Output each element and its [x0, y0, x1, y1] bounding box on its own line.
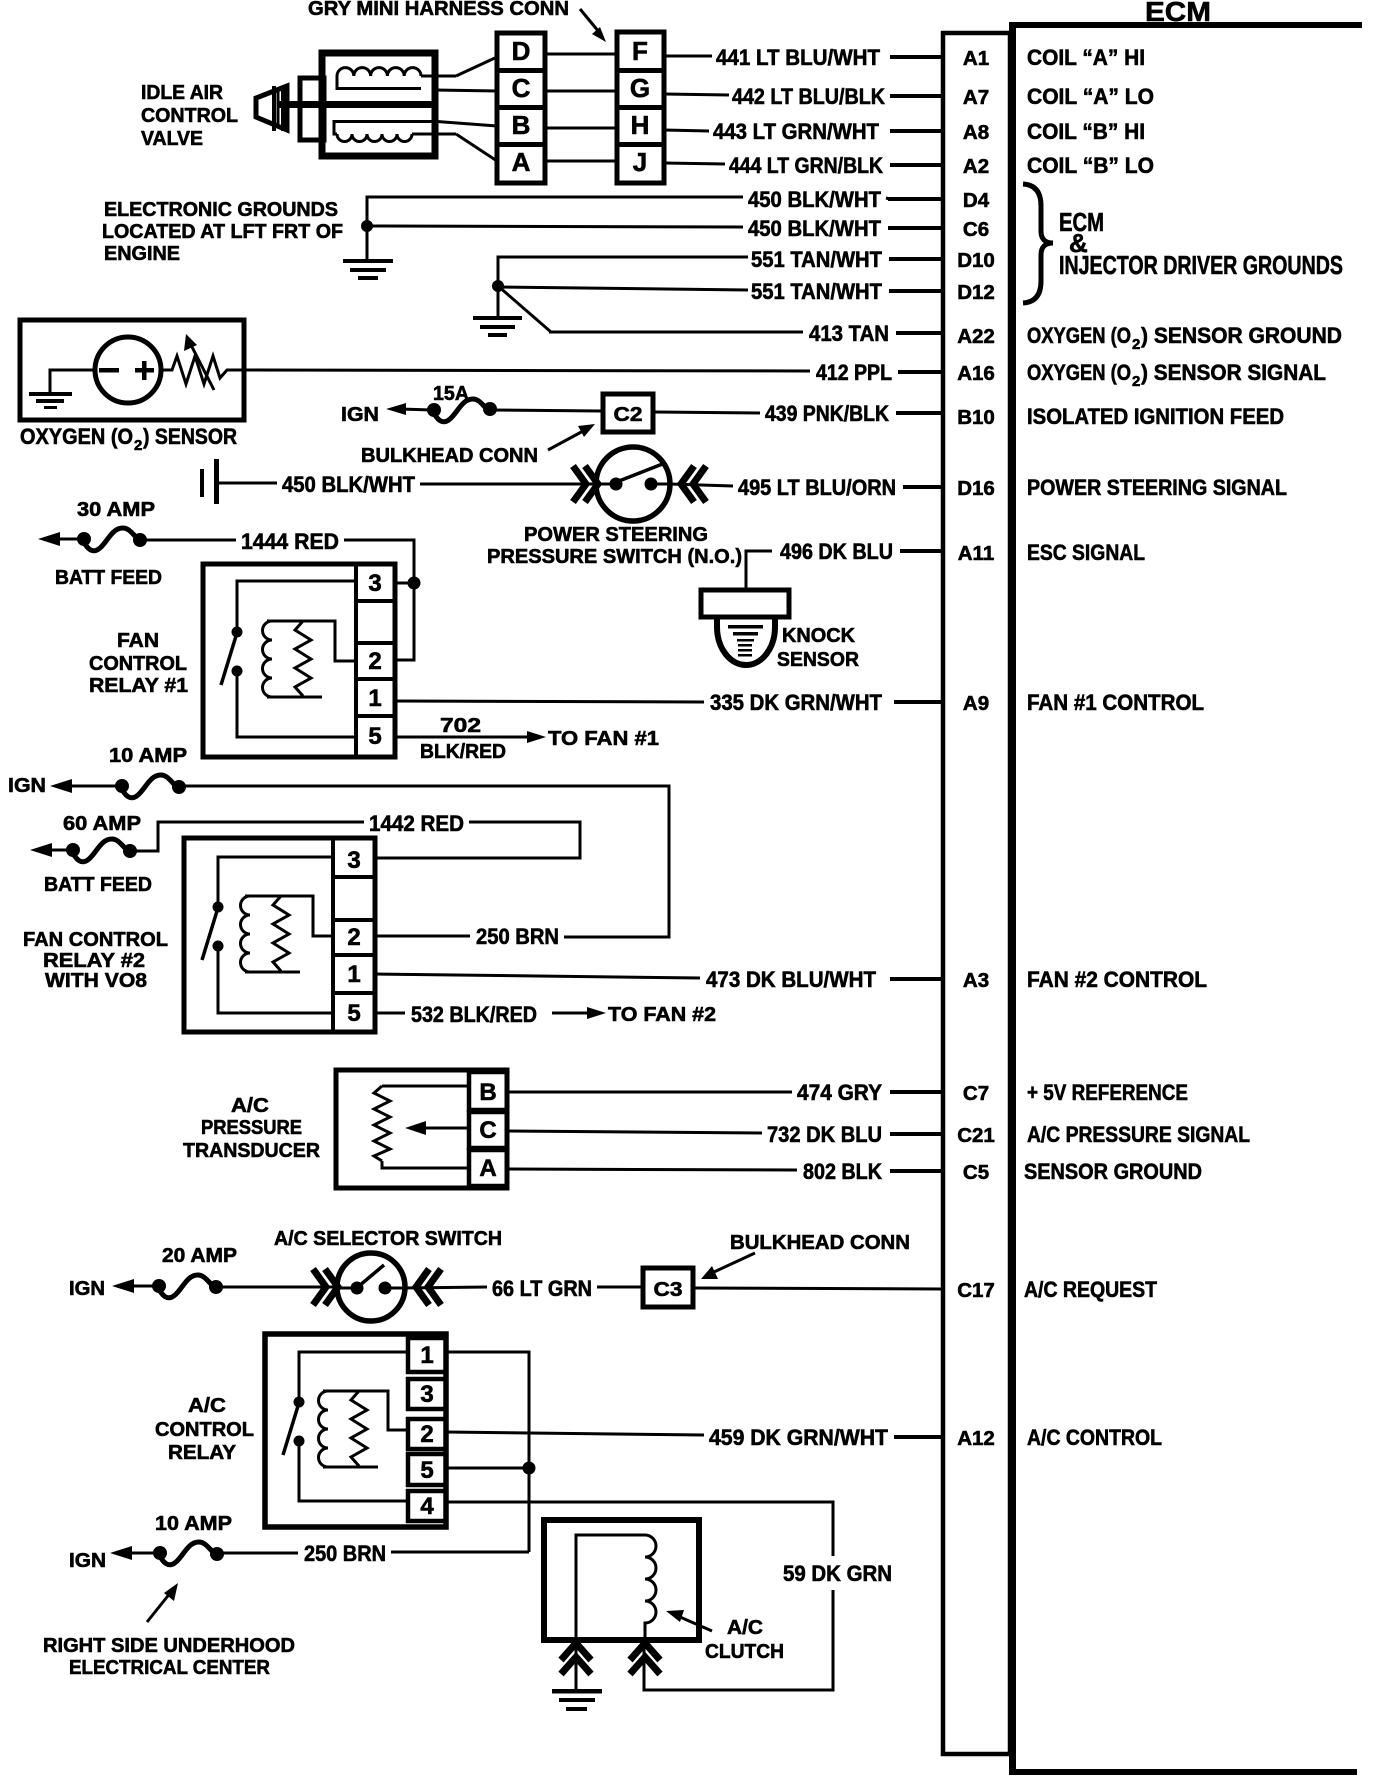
wire 60A fuse to 1442 RED: [130, 822, 364, 851]
A/C selector switch circle: [337, 1253, 405, 1321]
svg-text:SENSOR: SENSOR: [777, 649, 860, 671]
svg-text:COIL “A” HI: COIL “A” HI: [1027, 45, 1145, 70]
wire fuse to 250 BRN label: [217, 1552, 298, 1555]
valve cone inner line: [277, 90, 280, 126]
svg-text:A/C: A/C: [231, 1095, 269, 1117]
svg-text:C: C: [479, 1117, 496, 1144]
IAC coil B (bottom winding): [334, 122, 456, 142]
svg-text:A: A: [479, 1155, 496, 1182]
svg-text:VALVE: VALVE: [141, 128, 203, 150]
wire 441 from F: [664, 55, 712, 58]
svg-text:1444 RED: 1444 RED: [241, 529, 339, 554]
label RIGHT SIDE UNDERHOOD ELECTRICAL CENTER: [43, 1635, 295, 1679]
svg-text:2: 2: [1132, 336, 1140, 353]
svg-text:443 LT GRN/WHT: 443 LT GRN/WHT: [713, 119, 880, 144]
svg-text:2: 2: [420, 1421, 433, 1448]
signal OXYGEN (O2) SENSOR SIGNAL: [1027, 360, 1326, 390]
svg-text:450 BLK/WHT: 450 BLK/WHT: [748, 187, 882, 212]
label POWER STEERING PRESSURE SWITCH (N.O.): [487, 524, 742, 568]
plus sign: [135, 361, 154, 380]
svg-text:SENSOR GROUND: SENSOR GROUND: [1024, 1159, 1202, 1184]
transducer internal bottom wire to A: [382, 1161, 469, 1168]
svg-text:C21: C21: [957, 1124, 995, 1147]
wire stub A11: [900, 549, 943, 553]
wire label to C3: [597, 1286, 641, 1289]
wire 551 TAN/WHT to D12: [498, 287, 748, 290]
svg-text:D: D: [512, 36, 531, 66]
svg-text:5: 5: [420, 1457, 433, 1484]
A/C clutch box: [544, 1520, 699, 1640]
wire switch to 495 label: [669, 484, 733, 486]
svg-text:A/C: A/C: [188, 1395, 226, 1417]
wire 532 BLK/RED from pin 5: [375, 1012, 405, 1015]
svg-text:RIGHT SIDE UNDERHOOD: RIGHT SIDE UNDERHOOD: [43, 1635, 295, 1657]
svg-text:ESC SIGNAL: ESC SIGNAL: [1027, 540, 1145, 565]
svg-text:A9: A9: [963, 692, 989, 715]
svg-text:A/C: A/C: [727, 1617, 763, 1639]
svg-text:IGN: IGN: [8, 775, 46, 797]
arrow to C2: [548, 424, 595, 450]
svg-text:COIL “B” HI: COIL “B” HI: [1027, 119, 1145, 144]
wire 450 BLK/WHT to D4: [367, 197, 890, 225]
svg-text:496 DK BLU: 496 DK BLU: [780, 539, 893, 564]
svg-text:IGN: IGN: [341, 404, 379, 426]
svg-text:A: A: [512, 147, 531, 177]
connector FGHJ: [617, 32, 664, 183]
svg-text:D4: D4: [963, 189, 990, 212]
A/C control relay outer box: [265, 1334, 446, 1527]
svg-text:+ 5V REFERENCE: + 5V REFERENCE: [1027, 1080, 1188, 1105]
svg-text:C: C: [512, 73, 531, 103]
svg-text:2: 2: [368, 648, 381, 675]
svg-text:10 AMP: 10 AMP: [155, 1513, 232, 1535]
brace ECM and injector driver grounds: [1023, 184, 1053, 303]
svg-text:ELECTRONIC GROUNDS: ELECTRONIC GROUNDS: [104, 199, 338, 221]
wire coil A hi to pin D: [456, 57, 497, 76]
wire 702 BLK/RED from pin 5: [395, 736, 528, 739]
wire coil B lo to pin A: [456, 134, 497, 161]
svg-text:) SENSOR GROUND: ) SENSOR GROUND: [1141, 323, 1342, 348]
ground A/C clutch: [552, 1641, 602, 1711]
wire 413 TAN diagonal from ground2: [498, 286, 551, 332]
svg-text:WITH VO8: WITH VO8: [45, 970, 147, 992]
svg-text:A22: A22: [957, 325, 995, 348]
svg-text:3: 3: [368, 570, 381, 597]
svg-text:D10: D10: [957, 249, 995, 272]
wire 802 BLK from A: [507, 1169, 797, 1170]
svg-text:TO FAN #2: TO FAN #2: [608, 1004, 716, 1026]
connector C3: [643, 1268, 693, 1307]
wire B to H: [545, 127, 617, 130]
transducer pin strip: [469, 1072, 507, 1186]
relay 2 outer box: [184, 838, 375, 1032]
wire stub A3: [890, 977, 943, 981]
wire fuse to selector switch: [216, 1286, 338, 1289]
relay2 switch to pin 5: [218, 946, 333, 1013]
wire 450 label to switch: [420, 483, 598, 486]
idle air control valve body: [322, 53, 435, 156]
svg-text:732 DK BLU: 732 DK BLU: [767, 1122, 882, 1147]
arrow through resistor: [184, 334, 214, 390]
svg-text:TRANSDUCER: TRANSDUCER: [183, 1140, 321, 1162]
valve flange bar: [281, 86, 289, 131]
wire 551 TAN/WHT to D10: [498, 257, 748, 286]
svg-text:OXYGEN (O: OXYGEN (O: [20, 424, 133, 449]
wire 335 DK GRN/WHT from pin 1: [395, 701, 704, 702]
svg-text:5: 5: [368, 723, 381, 750]
wire 473 DK BLU/WHT from pin 1: [375, 974, 700, 978]
svg-text:A7: A7: [963, 86, 989, 109]
wire right chevron stem: [643, 1641, 646, 1690]
svg-text:1: 1: [347, 961, 360, 988]
wire stub A9: [894, 700, 943, 704]
wire 450 BLK/WHT to C6: [367, 226, 743, 227]
wire 1442 RED to relay2 pin 3: [375, 822, 580, 858]
relay2 internal switch wiring: [218, 857, 333, 902]
svg-text:IGN: IGN: [69, 1550, 106, 1572]
wire stub B10: [896, 411, 943, 415]
label ELECTRONIC GROUNDS LOCATED AT LFT FRT OF ENGINE: [102, 199, 343, 265]
wire pin 4 to clutch feed: [446, 1502, 833, 1556]
svg-text:FAN: FAN: [117, 630, 159, 652]
ground electronic ground 2: [473, 286, 522, 337]
svg-text:C5: C5: [963, 1161, 989, 1184]
transducer internal resistor: [374, 1086, 390, 1161]
svg-text:ELECTRICAL CENTER: ELECTRICAL CENTER: [69, 1657, 271, 1679]
clutch internal wire: [576, 1535, 645, 1637]
svg-text:C17: C17: [957, 1279, 995, 1302]
svg-text:KNOCK: KNOCK: [782, 625, 856, 647]
svg-text:CONTROL: CONTROL: [141, 105, 238, 127]
connector bars 450 BLK/WHT: [200, 459, 219, 504]
clutch terminal chevrons right: [630, 1643, 660, 1674]
acrelay coil: [319, 1391, 408, 1467]
label OXYGEN (O2) SENSOR: [20, 424, 237, 454]
svg-text:1: 1: [368, 685, 381, 712]
A/C pressure transducer box: [336, 1070, 507, 1188]
arrow IGN left (selector row): [112, 1279, 158, 1293]
selector switch contacts: [338, 1265, 404, 1295]
label A/C CLUTCH: [705, 1617, 784, 1663]
wire C2 to B10 label: [655, 412, 760, 413]
wire coil B hi to pin B: [437, 122, 497, 127]
wire stub A2: [890, 163, 943, 167]
fuse 20 AMP: [152, 1275, 223, 1298]
signal OXYGEN (O2) SENSOR GROUND: [1027, 323, 1342, 353]
wire stub A8: [890, 129, 943, 133]
svg-text:H: H: [631, 110, 650, 140]
ECM box outline: [1009, 22, 1362, 1775]
relay2 coil: [241, 896, 334, 972]
acrelay switch to pin 4: [299, 1441, 408, 1501]
oxygen sensor box: [20, 320, 244, 420]
svg-text:3: 3: [347, 847, 360, 874]
minus sign: [99, 368, 119, 373]
label FAN CONTROL RELAY #1: [89, 630, 188, 697]
wire IGN 10A to relay2 250 BRN: [179, 786, 669, 937]
IAC coil A (top winding): [337, 68, 456, 89]
svg-text:PRESSURE: PRESSURE: [201, 1117, 302, 1139]
svg-text:BATT FEED: BATT FEED: [44, 874, 152, 896]
valve neck step: [300, 78, 324, 140]
svg-text:COIL “B” LO: COIL “B” LO: [1027, 153, 1154, 178]
wire 444 from J: [664, 163, 725, 164]
relay 1 outer box: [203, 564, 395, 757]
svg-text:1442 RED: 1442 RED: [369, 811, 464, 836]
clutch coil: [645, 1535, 656, 1637]
svg-text:D12: D12: [957, 281, 995, 304]
svg-text:450 BLK/WHT: 450 BLK/WHT: [748, 216, 882, 241]
valve flange thin bar: [272, 86, 276, 131]
connector chevrons left of selector: [313, 1269, 338, 1305]
svg-text:J: J: [633, 147, 647, 177]
svg-text:ENGINE: ENGINE: [104, 243, 180, 265]
arrow BATT FEED 60A left: [30, 843, 73, 857]
wire fuse to C2: [490, 410, 601, 411]
fuse 60 AMP: [66, 839, 137, 862]
svg-text:BULKHEAD CONN: BULKHEAD CONN: [361, 445, 538, 467]
svg-text:A3: A3: [963, 969, 989, 992]
label KNOCK SENSOR: [777, 625, 860, 671]
wire 413 TAN to A22: [549, 331, 803, 334]
svg-text:OXYGEN (O: OXYGEN (O: [1027, 360, 1131, 385]
svg-text:442 LT BLU/BLK: 442 LT BLU/BLK: [732, 84, 885, 109]
label IDLE AIR CONTROL VALVE: [141, 82, 238, 150]
switch contacts: [598, 463, 669, 491]
svg-text:250 BRN: 250 BRN: [476, 924, 559, 949]
relay1 coil: [263, 621, 357, 697]
svg-text:INJECTOR DRIVER GROUNDS: INJECTOR DRIVER GROUNDS: [1059, 250, 1343, 280]
svg-text:495 LT BLU/ORN: 495 LT BLU/ORN: [738, 475, 896, 500]
wire 732 DK BLU from C: [507, 1131, 762, 1133]
fuse 30 AMP: [77, 528, 147, 551]
switch contact dots relay1: [221, 627, 243, 686]
wire stub C6: [888, 226, 943, 230]
svg-text:1: 1: [420, 1342, 433, 1369]
svg-text:551 TAN/WHT: 551 TAN/WHT: [751, 247, 883, 272]
wire C3 to C17: [695, 1288, 943, 1289]
transducer internal top wire to B: [382, 1085, 469, 1088]
valve center divider and pintle shaft: [277, 101, 435, 108]
oxygen sensor cell circle: [95, 337, 161, 403]
svg-text:IGN: IGN: [69, 1278, 105, 1300]
svg-text:441 LT BLU/WHT: 441 LT BLU/WHT: [716, 45, 881, 70]
acrelay internal switch wiring: [299, 1352, 408, 1397]
svg-text:FAN #1 CONTROL: FAN #1 CONTROL: [1027, 690, 1204, 715]
wire stub A16: [898, 370, 943, 374]
wire stub A1: [890, 55, 943, 59]
svg-text:RELAY #2: RELAY #2: [43, 950, 145, 972]
resistor variable (O2 sensor element): [161, 356, 810, 384]
fuse 10 AMP (A/C row): [153, 1542, 224, 1565]
svg-text:10 AMP: 10 AMP: [109, 745, 187, 767]
svg-text:250 BRN: 250 BRN: [304, 1541, 386, 1566]
svg-text:OXYGEN (O: OXYGEN (O: [1027, 323, 1131, 348]
svg-text:A/C REQUEST: A/C REQUEST: [1024, 1277, 1157, 1302]
wire junction to pin 3: [395, 582, 414, 585]
svg-text:474 GRY: 474 GRY: [797, 1080, 882, 1105]
clutch terminal chevrons left: [561, 1643, 591, 1674]
svg-text:) SENSOR SIGNAL: ) SENSOR SIGNAL: [1141, 360, 1326, 385]
svg-text:B: B: [512, 110, 531, 140]
power steering pressure switch circle: [596, 447, 670, 521]
wire 250 BRN from pin 2: [375, 935, 470, 938]
wire bars to 450 label: [219, 482, 277, 485]
label FAN CONTROL RELAY #2 WITH VO8: [23, 929, 168, 992]
wire A to J: [545, 160, 617, 163]
wire stub C21: [890, 1132, 943, 1136]
node 1444 RED junction at pin 3: [408, 577, 421, 590]
svg-text:CONTROL: CONTROL: [89, 653, 187, 675]
svg-text:A16: A16: [957, 362, 995, 385]
svg-text:A1: A1: [963, 47, 989, 70]
svg-text:3: 3: [420, 1381, 433, 1408]
arrow to C3: [701, 1253, 755, 1279]
wire stub C5: [890, 1169, 943, 1173]
svg-text:A12: A12: [957, 1427, 995, 1450]
wire D to F: [545, 53, 617, 56]
wire 443 from H: [664, 130, 709, 131]
svg-text:ISOLATED IGNITION FEED: ISOLATED IGNITION FEED: [1027, 404, 1284, 429]
knock sensor dome: [717, 617, 775, 665]
arrow IGN left (B10 row): [386, 403, 432, 415]
svg-text:459 DK GRN/WHT: 459 DK GRN/WHT: [709, 1425, 889, 1450]
svg-text:C2: C2: [614, 404, 643, 426]
svg-text:IDLE AIR: IDLE AIR: [141, 82, 224, 104]
fuse 10 AMP (fan row): [115, 775, 186, 798]
connector chevrons right of selector: [416, 1269, 441, 1305]
arrow to clutch coil: [666, 1610, 712, 1631]
relay1 switch to pin 5: [237, 671, 356, 737]
wire 496 DK BLU bracket: [746, 551, 772, 589]
arrow IGN left (A/C row): [110, 1546, 159, 1560]
relay1 internal switch wiring: [237, 581, 356, 627]
arrow to harness connector: [580, 9, 606, 42]
svg-text:COIL “A” LO: COIL “A” LO: [1027, 84, 1154, 109]
wire fuse to 1444 RED label: [140, 539, 236, 542]
wire 459 DK GRN/WHT from pin 2: [446, 1432, 704, 1435]
svg-text:551 TAN/WHT: 551 TAN/WHT: [751, 279, 883, 304]
wire stub D10: [889, 257, 943, 261]
svg-text:59 DK GRN: 59 DK GRN: [783, 1561, 892, 1586]
relay 2 pin strip: [333, 840, 375, 1030]
node junction pin5: [523, 1462, 536, 1475]
svg-text:BATT FEED: BATT FEED: [55, 567, 162, 589]
label A/C CONTROL RELAY: [155, 1395, 254, 1464]
svg-text:TO FAN #1: TO FAN #1: [548, 728, 659, 750]
svg-text:LOCATED AT LFT FRT OF: LOCATED AT LFT FRT OF: [102, 221, 343, 243]
svg-text:RELAY #1: RELAY #1: [89, 675, 188, 697]
wire stub D4: [888, 197, 943, 201]
wire coil A lo to pin C: [435, 90, 497, 91]
ground electronic ground 1: [343, 226, 393, 280]
arrow TO FAN #1: [527, 728, 659, 750]
ECM pin connector column: [943, 33, 1010, 1754]
arrow IGN left (fan row): [50, 779, 122, 793]
svg-text:PRESSURE SWITCH (N.O.): PRESSURE SWITCH (N.O.): [487, 546, 742, 568]
svg-text:A2: A2: [963, 155, 989, 178]
ground oxygen sensor internal: [29, 392, 72, 409]
svg-text:20 AMP: 20 AMP: [162, 1245, 237, 1267]
svg-text:A8: A8: [963, 121, 989, 144]
wire pin5 to junction: [446, 1467, 529, 1470]
svg-text:66 LT GRN: 66 LT GRN: [492, 1276, 592, 1301]
svg-text:802 BLK: 802 BLK: [803, 1159, 882, 1184]
svg-text:B: B: [479, 1079, 496, 1106]
svg-text:4: 4: [420, 1493, 434, 1520]
svg-text:A/C CONTROL: A/C CONTROL: [1027, 1425, 1162, 1450]
svg-text:30 AMP: 30 AMP: [77, 499, 155, 521]
wire pin1 to vertical: [446, 1352, 529, 1463]
svg-text:F: F: [632, 36, 648, 66]
label 702 BLK/RED: [420, 715, 506, 763]
wire junction down to 250 BRN: [528, 1468, 531, 1552]
relay 1 pin strip: [356, 566, 395, 755]
fuse 15A: [427, 399, 497, 422]
svg-text:B10: B10: [957, 406, 995, 429]
connector DCBA: [497, 33, 545, 183]
node ground1 junction: [361, 220, 373, 232]
svg-text:60 AMP: 60 AMP: [63, 813, 141, 835]
switch contact dots relay2: [202, 902, 224, 961]
svg-text:444 LT GRN/BLK: 444 LT GRN/BLK: [729, 153, 883, 178]
svg-text:BULKHEAD CONN: BULKHEAD CONN: [730, 1232, 910, 1254]
svg-text:702: 702: [440, 715, 481, 737]
wire stub D16: [903, 485, 943, 489]
svg-text:POWER STEERING: POWER STEERING: [524, 524, 708, 546]
svg-text:GRY MINI HARNESS CONN: GRY MINI HARNESS CONN: [308, 0, 569, 20]
svg-text:413 TAN: 413 TAN: [809, 321, 889, 346]
wire 474 GRY from B: [507, 1091, 792, 1094]
knock sensor connector bar: [701, 590, 789, 617]
svg-text:FAN #2 CONTROL: FAN #2 CONTROL: [1027, 967, 1207, 992]
svg-text:D16: D16: [957, 477, 995, 500]
wire stub C7: [890, 1090, 943, 1094]
svg-text:A/C PRESSURE SIGNAL: A/C PRESSURE SIGNAL: [1027, 1122, 1250, 1147]
svg-text:A/C SELECTOR SWITCH: A/C SELECTOR SWITCH: [274, 1228, 502, 1250]
arrow BATT FEED 30A left: [38, 532, 84, 546]
svg-text:439 PNK/BLK: 439 PNK/BLK: [765, 401, 889, 426]
label A/C PRESSURE TRANSDUCER: [183, 1095, 321, 1162]
arrow to right side underhood fuse: [147, 1583, 178, 1622]
svg-text:412 PPL: 412 PPL: [816, 360, 892, 385]
svg-text:335 DK GRN/WHT: 335 DK GRN/WHT: [710, 690, 883, 715]
valve pintle cone: [256, 86, 287, 130]
svg-text:2: 2: [1132, 373, 1140, 390]
wire stub A12: [894, 1435, 943, 1439]
wire 59 DK GRN lower segment: [644, 1590, 833, 1690]
wire 250 BRN to junction vertical: [391, 1551, 529, 1554]
wire 442 from G: [664, 94, 729, 95]
transducer wiper arrow from C: [405, 1121, 469, 1135]
wire stub A7: [890, 94, 943, 98]
svg-text:A11: A11: [958, 542, 994, 565]
svg-text:RELAY: RELAY: [168, 1442, 237, 1464]
svg-text:2: 2: [134, 437, 142, 454]
svg-text:5: 5: [347, 1000, 360, 1027]
node ground2 junction: [492, 280, 504, 292]
svg-text:CONTROL: CONTROL: [155, 1419, 254, 1441]
wire stub A22: [896, 331, 943, 335]
wire selector to 66 LT GRN: [404, 1287, 487, 1288]
svg-text:C6: C6: [963, 218, 989, 241]
switch contact dots acrelay: [283, 1397, 305, 1456]
svg-text:C7: C7: [963, 1082, 989, 1105]
wire circle to internal ground: [50, 370, 95, 393]
svg-text:G: G: [630, 73, 650, 103]
knock sensor element lines: [728, 625, 763, 657]
wire C to G: [545, 90, 617, 93]
